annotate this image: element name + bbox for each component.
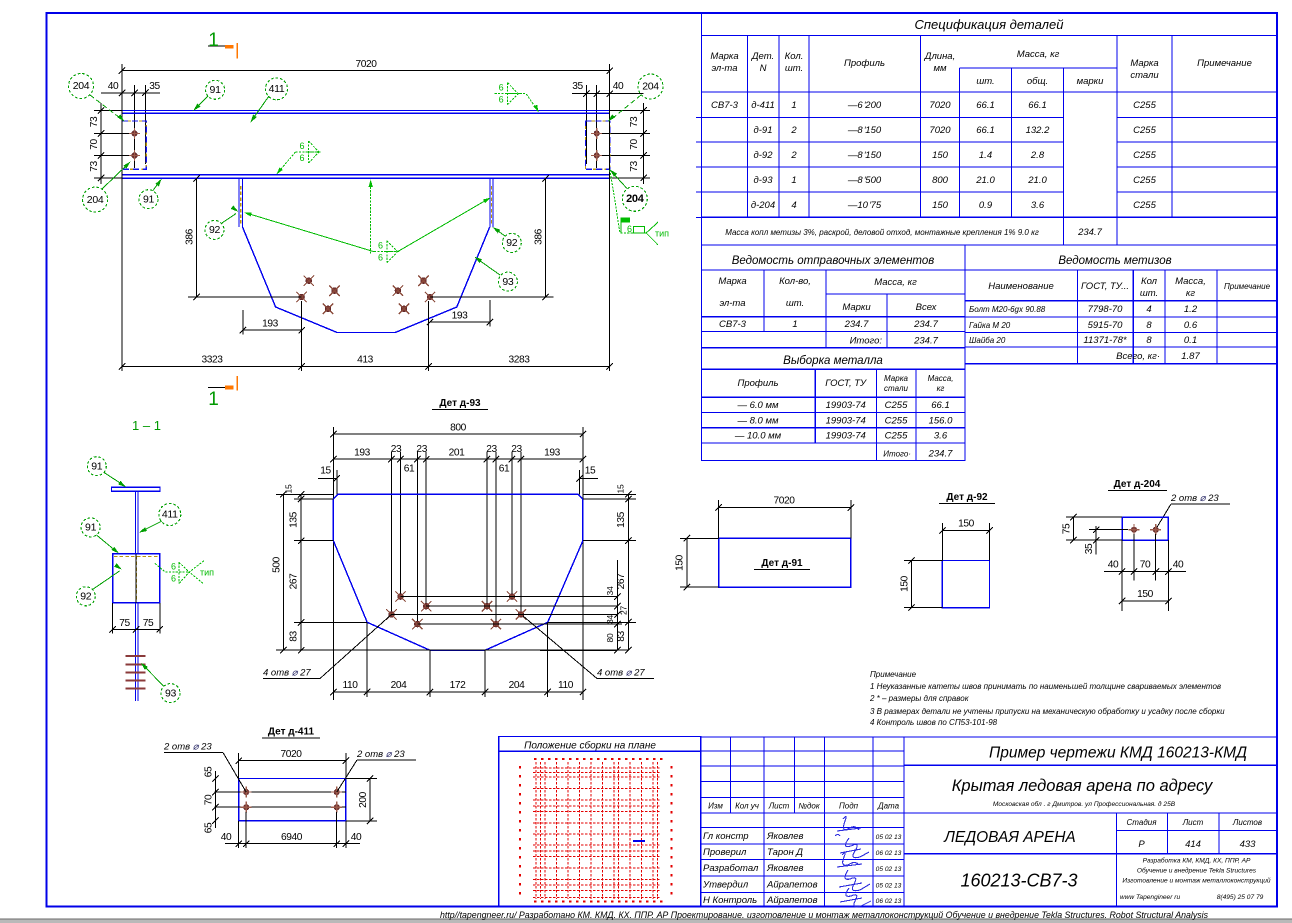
svg-text:34: 34 [605,615,615,624]
svg-text:тип: тип [655,229,669,239]
svg-text:кг: кг [937,384,945,393]
svg-text:65: 65 [204,822,215,833]
svg-text:СВ7-3: СВ7-3 [719,319,747,330]
svg-text:Кол: Кол [1141,276,1158,287]
svg-text:Гл констр: Гл констр [703,831,749,842]
box: Положение сборки на плане [499,737,701,907]
svg-text:шт.: шт. [785,63,803,74]
section mark 1 (top) [208,45,233,47]
svg-text:135: 135 [616,511,627,528]
svg-text:200: 200 [358,791,369,808]
svg-text:70: 70 [1140,560,1151,571]
balloon 204 (top right, dashed) [638,74,663,99]
svg-text:15: 15 [616,484,626,493]
svg-text:http//tapengneer.ru/ Разработ: http//tapengneer.ru/ Разработано КМ. КМД… [440,910,1209,920]
vertical dims left: 500 / 15 135 267 83 [282,494,284,650]
dim 7020 [239,760,346,762]
svg-text:Пример чертежи КМД 160213-КМД: Пример чертежи КМД 160213-КМД [989,745,1247,762]
svg-text:С255: С255 [1133,150,1156,161]
svg-text:Яковлев: Яковлев [766,831,804,842]
svg-text:С255: С255 [885,400,908,411]
svg-text:1: 1 [792,319,797,330]
dim 35 [1095,526,1097,555]
svg-text:6: 6 [171,574,176,584]
svg-text:Масса, кг: Масса, кг [1017,49,1060,60]
gusset д-93 outline (main view) [243,227,490,333]
svg-text:Лист: Лист [1182,818,1204,827]
notes text [869,670,1225,727]
svg-text:Тарон Д: Тарон Д [767,847,803,858]
svg-text:15: 15 [284,484,294,493]
svg-text:800: 800 [450,423,467,434]
section mark 1 (bottom) [208,386,233,388]
svg-text:Ведомость отправочных элементо: Ведомость отправочных элементов [732,255,935,267]
svg-text:66.1: 66.1 [976,125,995,136]
svg-text:—8 ̕150: —8 ̕150 [847,125,882,136]
svg-text:1: 1 [208,30,219,51]
svg-text:2.8: 2.8 [1030,150,1045,161]
dim 193 left [243,329,302,331]
svg-text:Положение сборки на плане: Положение сборки на плане [524,740,656,752]
svg-text:7020: 7020 [929,100,951,111]
dim 200 [369,779,371,821]
svg-text:92: 92 [209,224,221,236]
stiffener д-92 left [238,178,240,227]
svg-text:19903-74: 19903-74 [826,415,866,426]
svg-text:40: 40 [613,81,624,92]
svg-text:1: 1 [791,175,796,186]
balloon 91 (flange) [87,457,106,476]
svg-text:Профиль: Профиль [844,58,885,69]
svg-text:стали: стали [1130,70,1159,81]
dim 75 [1072,517,1074,540]
svg-text:93: 93 [502,276,514,288]
balloon 204 (top left, dashed) [69,74,94,99]
dims 3323/413/3283 [122,365,610,367]
svg-text:156.0: 156.0 [929,415,953,426]
dim 386 right [545,178,547,297]
dim 15 corner left [318,477,337,479]
svg-text:70: 70 [204,794,215,805]
svg-text:234.7: 234.7 [913,336,938,347]
svg-text:Стадия: Стадия [1127,818,1158,827]
dim 150 top [942,529,989,531]
svg-text:1.2: 1.2 [1184,304,1198,315]
dim 7020 (top) [122,70,610,72]
svg-text:35: 35 [149,81,160,92]
assembly position mark (blue) [633,840,645,842]
svg-text:7020: 7020 [280,749,302,760]
balloon 91 (top) [206,80,225,99]
svg-text:5915-70: 5915-70 [1088,320,1124,331]
weld symbol 6/6 (middle) [296,141,321,163]
bolts д-93 [395,591,405,601]
svg-text:Профиль: Профиль [737,378,778,389]
svg-text:61: 61 [404,464,415,475]
svg-text:Крытая ледовая арена по адресу: Крытая ледовая арена по адресу [952,777,1214,795]
svg-text:15: 15 [585,466,596,477]
svg-text:3283: 3283 [508,355,530,366]
svg-text:05 02 13: 05 02 13 [876,866,902,873]
dim 40/35 left [101,92,160,94]
svg-text:05 02 13: 05 02 13 [876,834,902,841]
left end plate д-204 (yellow+blue dashed) [122,121,146,169]
dim 75/75 [113,628,160,630]
svg-text:Масса копл метизы 3%, раскрой: Масса копл метизы 3%, раскрой, деловой о… [725,228,1039,237]
dim row 193/23/23/201/23/23/193 [333,458,583,460]
stiffener д-92 right [489,178,491,227]
svg-text:05 02 13: 05 02 13 [876,882,902,889]
dim 7020 [719,507,851,509]
svg-text:386: 386 [185,228,196,245]
svg-text:204: 204 [626,193,645,205]
svg-text:д-411: д-411 [751,100,775,111]
svg-text:204: 204 [642,81,659,93]
dim 150 [686,538,688,587]
svg-text:С255: С255 [1133,200,1156,211]
svg-text:73: 73 [89,161,100,172]
vertical dims 34/27/34/80 [616,560,618,650]
svg-text:Кол уч: Кол уч [735,802,759,811]
svg-text:Примечание: Примечание [1224,282,1271,291]
svg-text:д-93: д-93 [754,175,774,186]
bolts right end [591,128,602,139]
svg-text:193: 193 [262,319,279,330]
svg-text:06 02 13: 06 02 13 [876,850,902,857]
svg-text:19903-74: 19903-74 [826,400,866,411]
svg-text:Масса,: Масса, [1175,276,1206,287]
top flange (edge) [112,487,161,491]
bolts д-411 [241,787,252,798]
svg-text:66.1: 66.1 [931,400,950,411]
svg-text:204: 204 [73,80,90,92]
svg-text:Дет.: Дет. [751,51,774,62]
svg-text:—8 ̕500: —8 ̕500 [847,175,882,186]
balloon 411 [266,78,288,100]
svg-text:75: 75 [119,618,130,629]
bolts (edge-on, red hatches) [126,655,146,657]
weld symbol тип (section) [155,563,189,572]
svg-text:Марка: Марка [710,51,738,62]
table: Ведомость метизов [965,245,1277,364]
svg-text:8: 8 [1146,335,1152,346]
svg-text:234.7: 234.7 [1077,227,1102,238]
svg-text:21.0: 21.0 [975,175,995,186]
svg-text:7020: 7020 [773,496,795,507]
svg-text:0.9: 0.9 [979,200,993,211]
weld symbol 6/6 (lower center, bowtie) [374,241,399,263]
svg-text:эл-та: эл-та [719,298,745,309]
svg-text:91: 91 [91,460,103,472]
web (edge) [134,491,136,554]
bolts left end [129,128,140,139]
svg-text:11371-78*: 11371-78* [1083,335,1126,346]
svg-text:73: 73 [629,161,640,172]
svg-text:414: 414 [1185,839,1201,850]
svg-text:66.1: 66.1 [1028,100,1047,111]
svg-text:8(495) 25 07 79: 8(495) 25 07 79 [1217,894,1264,901]
svg-text:70: 70 [89,139,100,150]
svg-text:СВ7-3: СВ7-3 [711,100,739,111]
svg-text:Подп: Подп [839,802,859,811]
svg-text:Разработал: Разработал [703,863,759,874]
table: Ведомость отправочных элементов [702,245,966,348]
svg-text:Наименование: Наименование [988,281,1054,292]
svg-text:Марки: Марки [842,302,871,313]
svg-text:1: 1 [208,389,219,410]
svg-text:19903-74: 19903-74 [826,430,866,441]
svg-text:0.1: 0.1 [1184,335,1197,346]
svg-text:0.6: 0.6 [1184,320,1198,331]
svg-text:7020: 7020 [929,125,951,136]
svg-text:Выборка металла: Выборка металла [783,355,883,367]
svg-text:204: 204 [391,680,408,691]
svg-text:С255: С255 [1133,175,1156,186]
svg-text:234.7: 234.7 [844,319,869,330]
svg-text:135: 135 [289,511,300,528]
dim 150 [1122,600,1168,602]
svg-text:150: 150 [958,519,975,530]
svg-text:Ведомость метизов: Ведомость метизов [1058,255,1171,267]
red building grid [520,759,672,902]
svg-text:Московская обл . г Дмитров. ул: Московская обл . г Дмитров. ул Профессио… [993,800,1176,808]
svg-text:6940: 6940 [281,832,303,843]
right end plate д-204 [586,121,610,169]
svg-text:411: 411 [269,83,285,95]
svg-text:6: 6 [627,224,632,234]
svg-text:83: 83 [289,631,300,642]
svg-text:160213-СВ7-3: 160213-СВ7-3 [960,871,1077,891]
dims 73/70/73 right [643,103,645,184]
bolts д-204 [1129,524,1140,535]
svg-text:35: 35 [572,81,583,92]
svg-text:66.1: 66.1 [976,100,995,111]
svg-text:Гайка М 20: Гайка М 20 [969,321,1011,330]
svg-text:тип: тип [200,568,214,578]
svg-text:800: 800 [932,175,949,186]
svg-text:Примечание: Примечание [870,670,917,679]
svg-text:мм: мм [933,63,947,74]
svg-text:Шайба 20: Шайба 20 [969,336,1006,345]
svg-text:3 В размерах детали не учтены: 3 В размерах детали не учтены припуски н… [870,707,1225,716]
svg-text:Дет д-93: Дет д-93 [439,398,481,409]
svg-text:93: 93 [165,687,177,699]
svg-text:193: 193 [452,311,469,322]
svg-text:1 – 1: 1 – 1 [132,418,161,433]
svg-text:Изготовление и монтаж металлок: Изготовление и монтаж металлоконструкций [1122,877,1271,885]
svg-text:Марка: Марка [884,374,908,383]
svg-text:Проверил: Проверил [703,847,747,858]
svg-text:6: 6 [299,141,304,151]
svg-text:75: 75 [1062,523,1073,534]
svg-text:общ.: общ. [1027,76,1048,87]
bolts on gusset (main view) [304,276,314,286]
svg-text:Спецификация деталей: Спецификация деталей [915,17,1064,32]
svg-text:3.6: 3.6 [1031,200,1045,211]
plate д-204 [1122,517,1168,540]
dim 800 [333,433,583,435]
balloon 204 (bottom left) [83,187,108,212]
svg-text:Н Контроль: Н Контроль [703,895,757,906]
svg-text:1 Неуказанные катеты швов при: 1 Неуказанные катеты швов принимать по н… [870,682,1221,691]
svg-text:35: 35 [1084,543,1095,554]
svg-text:75: 75 [143,618,154,629]
svg-text:193: 193 [354,448,371,459]
svg-text:3.6: 3.6 [934,430,948,441]
svg-text:6: 6 [499,83,504,93]
svg-text:172: 172 [450,680,467,691]
svg-text:92: 92 [506,237,518,249]
svg-text:7020: 7020 [355,59,377,70]
svg-text:д-92: д-92 [754,150,774,161]
plate д-92 box [113,554,160,603]
svg-text:Айрапетов: Айрапетов [766,879,818,890]
vertical dims right: 15 135 267 83 [627,494,629,650]
svg-text:40: 40 [351,832,362,843]
svg-text:15: 15 [320,466,331,477]
svg-text:марки: марки [1077,76,1105,87]
svg-text:Марка: Марка [1130,58,1158,69]
svg-text:Марка: Марка [718,276,746,287]
svg-text:6: 6 [378,241,383,251]
bottom dims 110/204/172/204/110 [333,691,583,693]
dim 15 corner right [579,477,598,479]
svg-text:Всех: Всех [916,302,938,313]
weld symbol 6/6 (top right) [495,83,520,105]
svg-text:Итого:: Итого: [850,336,883,347]
svg-text:21.0: 21.0 [1027,175,1047,186]
svg-text:С255: С255 [885,415,908,426]
title block [701,737,1277,907]
balloon 93 [498,272,517,291]
svg-text:—10 ̕75: —10 ̕75 [847,200,882,211]
svg-text:267: 267 [289,573,300,590]
svg-text:N: N [760,63,767,74]
svg-text:Дет д-92: Дет д-92 [946,492,988,503]
svg-text:2: 2 [790,150,797,161]
svg-text:40: 40 [1108,560,1119,571]
svg-text:№док: №док [798,802,821,811]
svg-text:4: 4 [1146,304,1151,315]
weld symbol тип (right) [610,170,646,233]
svg-text:411: 411 [162,509,178,521]
svg-text:д-91: д-91 [754,125,773,136]
svg-text:204: 204 [87,194,104,206]
svg-text:Разработка КМ, КМД, КХ, ППР, А: Разработка КМ, КМД, КХ, ППР, АР [1143,857,1251,865]
svg-text:110: 110 [558,680,574,691]
dim 35/40 right [572,93,644,95]
dims 65/70/65 [214,771,216,828]
svg-text:06 02 13: 06 02 13 [876,898,902,905]
bolt row lines [401,596,618,598]
svg-text:Длина,: Длина, [924,51,955,62]
svg-text:193: 193 [544,448,561,459]
svg-text:73: 73 [629,116,640,127]
svg-text:92: 92 [80,591,92,603]
svg-text:150: 150 [675,554,686,571]
svg-text:40: 40 [221,832,232,843]
plate д-411 [239,779,346,821]
plate д-92 [942,561,989,608]
svg-text:6: 6 [378,253,383,263]
svg-text:Итого·: Итого· [883,450,911,459]
svg-text:386: 386 [534,228,545,245]
svg-text:1: 1 [791,100,796,111]
svg-text:Болт М20-6gх 90.88: Болт М20-6gх 90.88 [969,305,1046,314]
balloon 204 (bottom right) [622,186,647,211]
bolt lines [215,791,346,793]
svg-text:эл-та: эл-та [711,63,737,74]
svg-text:4: 4 [791,200,796,211]
svg-text:150: 150 [932,200,949,211]
dims 40/70/40 [1104,571,1186,573]
svg-text:132.2: 132.2 [1026,125,1050,136]
svg-text:—6 ̕200: —6 ̕200 [847,100,882,111]
svg-text:— 6.0 мм: — 6.0 мм [736,400,778,411]
svg-text:6: 6 [299,153,304,163]
svg-text:Р: Р [1138,839,1145,850]
svg-text:С255: С255 [1133,100,1156,111]
svg-text:150: 150 [932,150,949,161]
svg-text:Масса, кг: Масса, кг [874,277,917,288]
svg-text:8: 8 [1146,320,1152,331]
svg-text:1.4: 1.4 [979,150,992,161]
svg-text:150: 150 [900,575,911,592]
svg-text:д-204: д-204 [751,200,775,211]
svg-text:204: 204 [509,680,526,691]
dim 386 left [196,178,198,297]
svg-text:ГОСТ, ТУ...: ГОСТ, ТУ... [1081,281,1129,292]
svg-text:— 10.0 мм: — 10.0 мм [734,430,782,441]
svg-text:40: 40 [1173,560,1184,571]
gusset д-93 outline [333,494,583,650]
svg-text:—8 ̕150: —8 ̕150 [847,150,882,161]
svg-text:7798-70: 7798-70 [1088,304,1124,315]
svg-text:Дата: Дата [877,802,900,811]
svg-text:С255: С255 [1133,125,1156,136]
svg-text:150: 150 [1137,589,1154,600]
end verticals [121,64,123,178]
svg-text:500: 500 [272,556,283,573]
svg-text:Дет д-411: Дет д-411 [268,727,315,738]
svg-text:кг: кг [1186,288,1195,299]
svg-text:2 отв ⌀ 23: 2 отв ⌀ 23 [356,749,405,760]
svg-text:стали: стали [884,384,908,393]
svg-text:4 Контроль швов по СП53-101-: 4 Контроль швов по СП53-101-98 [870,718,998,727]
svg-text:40: 40 [108,81,119,92]
svg-text:80: 80 [605,633,615,642]
svg-text:70: 70 [629,139,640,150]
svg-text:6: 6 [499,95,504,105]
svg-text:91: 91 [85,522,97,534]
bottom window strip [0,920,1292,923]
svg-text:234.7: 234.7 [928,449,953,460]
svg-text:433: 433 [1240,839,1257,850]
balloon 91 (plate top) [81,518,100,537]
svg-text:27: 27 [619,606,629,615]
svg-text:73: 73 [89,116,100,127]
dims 73/70/73 left [100,103,102,184]
bottom chord д-91 (double line) [122,174,610,176]
balloon 93 [161,684,180,703]
svg-text:Кол.: Кол. [785,51,804,62]
svg-text:2 отв ⌀ 23: 2 отв ⌀ 23 [163,742,212,753]
svg-text:110: 110 [342,680,358,691]
svg-text:Примечание: Примечание [1197,58,1252,69]
svg-text:www Tapengineer ru: www Tapengineer ru [1120,894,1181,901]
svg-text:234.7: 234.7 [913,319,938,330]
svg-text:Обучение и внедрение Tekla St: Обучение и внедрение Tekla Structures [1137,867,1257,875]
